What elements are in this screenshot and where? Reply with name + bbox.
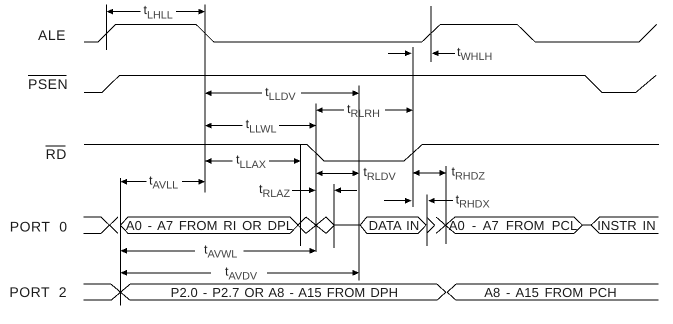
svg-text:A0 - A7 FROM RI OR DPL: A0 - A7 FROM RI OR DPL xyxy=(126,218,293,233)
svg-text:A8 - A15 FROM PCH: A8 - A15 FROM PCH xyxy=(484,285,617,300)
svg-text:tRLRH: tRLRH xyxy=(347,102,380,120)
svg-text:PSEN: PSEN xyxy=(28,76,68,92)
svg-text:A0 - A7 FROM PCL: A0 - A7 FROM PCL xyxy=(449,218,578,233)
svg-text:tRLAZ: tRLAZ xyxy=(259,182,290,200)
svg-text:tAVDV: tAVDV xyxy=(225,264,258,282)
svg-text:DATA IN: DATA IN xyxy=(369,218,420,233)
svg-text:tAVWL: tAVWL xyxy=(204,242,237,260)
svg-text:P2.0 - P2.7 OR A8 - A15 FROM D: P2.0 - P2.7 OR A8 - A15 FROM DPH xyxy=(171,285,398,300)
svg-text:tRHDZ: tRHDZ xyxy=(452,165,486,183)
svg-text:RD: RD xyxy=(46,146,67,162)
svg-text:tLLAX: tLLAX xyxy=(236,153,266,171)
svg-text:tLHLL: tLHLL xyxy=(144,3,173,21)
svg-text:tAVLL: tAVLL xyxy=(149,173,178,191)
svg-text:tLLDV: tLLDV xyxy=(265,85,296,103)
svg-text:tLLWL: tLLWL xyxy=(246,117,277,135)
svg-text:tRLDV: tRLDV xyxy=(363,165,396,183)
svg-text:PORT 0: PORT 0 xyxy=(10,218,68,234)
svg-text:tRHDX: tRHDX xyxy=(456,192,490,210)
svg-text:tWHLH: tWHLH xyxy=(457,45,492,63)
svg-text:PORT 2: PORT 2 xyxy=(9,284,67,300)
svg-text:INSTR IN: INSTR IN xyxy=(597,218,655,233)
svg-text:ALE: ALE xyxy=(38,27,66,43)
